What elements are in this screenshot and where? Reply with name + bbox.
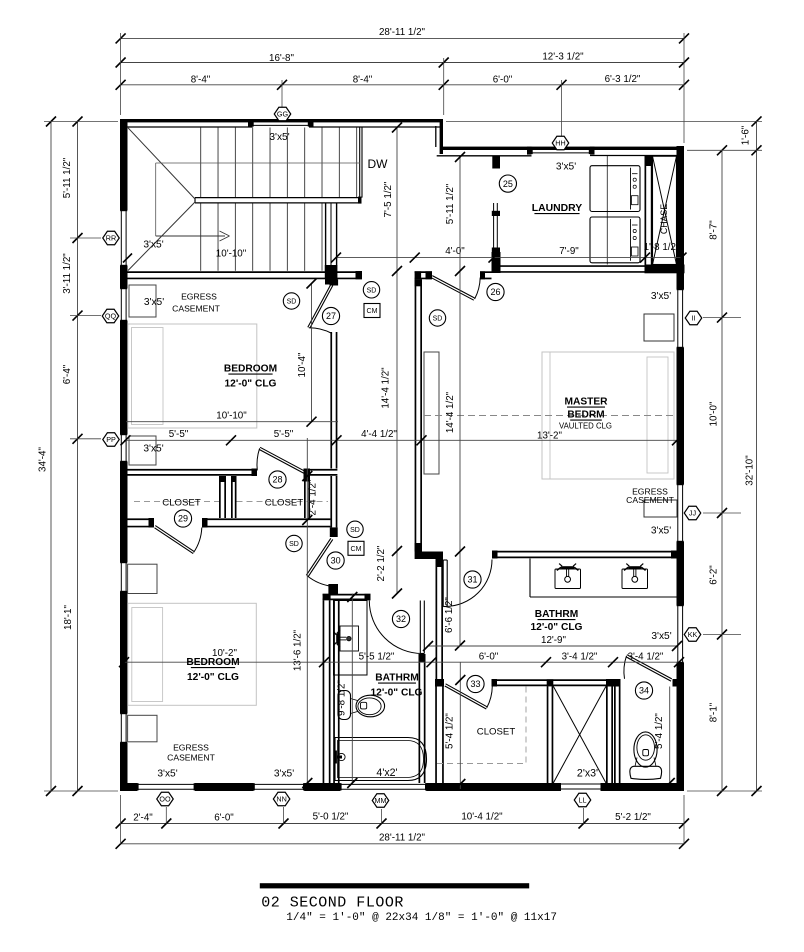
svg-text:26: 26 — [490, 287, 500, 297]
svg-text:BEDRM: BEDRM — [567, 410, 604, 421]
svg-text:13'-6 1/2": 13'-6 1/2" — [293, 629, 304, 671]
svg-text:7'-5 1/2": 7'-5 1/2" — [383, 181, 394, 217]
svg-text:13'-2": 13'-2" — [537, 431, 562, 442]
svg-text:CLOSET: CLOSET — [265, 498, 304, 509]
svg-text:5'-11 1/2": 5'-11 1/2" — [445, 183, 456, 224]
svg-text:10'-0": 10'-0" — [709, 401, 720, 426]
svg-text:3'x5': 3'x5' — [143, 240, 163, 251]
svg-text:6'-0": 6'-0" — [479, 651, 499, 662]
svg-text:BEDROOM: BEDROOM — [224, 364, 277, 375]
svg-text:3'x5': 3'x5' — [157, 769, 177, 780]
svg-text:NN: NN — [276, 795, 286, 804]
svg-text:14'-4 1/2": 14'-4 1/2" — [445, 391, 456, 433]
svg-text:10'-4 1/2": 10'-4 1/2" — [461, 812, 503, 823]
svg-text:8'-4": 8'-4" — [191, 74, 211, 85]
svg-text:PP: PP — [106, 435, 116, 444]
svg-text:HH: HH — [555, 139, 565, 148]
svg-text:28'-11 1/2": 28'-11 1/2" — [379, 27, 426, 38]
svg-text:28: 28 — [272, 475, 282, 485]
svg-text:6'-0": 6'-0" — [493, 74, 513, 85]
svg-text:12'-0" CLG: 12'-0" CLG — [531, 622, 583, 633]
svg-text:EGRESS: EGRESS — [173, 743, 209, 753]
svg-text:2'-4 1/2": 2'-4 1/2" — [308, 479, 319, 515]
svg-text:7'-9": 7'-9" — [559, 246, 579, 257]
svg-text:8'-1": 8'-1" — [709, 702, 720, 722]
svg-text:JJ: JJ — [689, 509, 697, 518]
svg-text:2'-2 1/2": 2'-2 1/2" — [376, 545, 387, 581]
svg-text:SD: SD — [367, 287, 377, 294]
svg-text:25: 25 — [503, 179, 513, 189]
svg-text:3'-4 1/2": 3'-4 1/2" — [562, 651, 598, 662]
svg-text:VAULTED CLG: VAULTED CLG — [559, 422, 612, 431]
svg-text:SD: SD — [287, 299, 297, 306]
svg-text:CHASE: CHASE — [659, 204, 669, 234]
svg-text:LAUNDRY: LAUNDRY — [532, 203, 582, 214]
svg-text:31: 31 — [467, 575, 477, 585]
svg-text:3'-4 1/2": 3'-4 1/2" — [628, 651, 664, 662]
svg-text:RR: RR — [106, 234, 116, 243]
svg-text:5'-5": 5'-5" — [274, 429, 294, 440]
svg-text:3'x5': 3'x5' — [556, 162, 576, 173]
svg-text:12'-0" CLG: 12'-0" CLG — [187, 672, 239, 683]
svg-text:10'-4": 10'-4" — [297, 352, 308, 377]
svg-text:12'-0" CLG: 12'-0" CLG — [371, 688, 423, 699]
svg-text:8'-4": 8'-4" — [353, 74, 373, 85]
svg-text:3'x5': 3'x5' — [269, 132, 289, 143]
svg-text:10'-10": 10'-10" — [216, 410, 247, 421]
svg-text:CASEMENT: CASEMENT — [172, 304, 220, 314]
svg-text:SD: SD — [433, 316, 443, 323]
svg-text:BEDROOM: BEDROOM — [186, 657, 239, 668]
svg-text:5'-4 1/2": 5'-4 1/2" — [445, 713, 456, 749]
svg-text:3'x5': 3'x5' — [651, 526, 671, 537]
svg-text:9'-8 1/2": 9'-8 1/2" — [337, 680, 348, 716]
svg-text:3'-11 1/2": 3'-11 1/2" — [62, 253, 73, 294]
svg-text:02 SECOND FLOOR: 02 SECOND FLOOR — [261, 895, 404, 912]
svg-text:5'-0 1/2": 5'-0 1/2" — [313, 812, 349, 823]
svg-text:8'-7": 8'-7" — [709, 220, 720, 240]
svg-text:29: 29 — [178, 514, 188, 524]
svg-text:4'x2': 4'x2' — [376, 767, 397, 779]
svg-text:12'-0" CLG: 12'-0" CLG — [225, 379, 277, 390]
svg-text:LL: LL — [579, 796, 587, 805]
svg-text:5'-5 1/2": 5'-5 1/2" — [359, 651, 395, 662]
svg-text:EGRESS: EGRESS — [181, 292, 217, 302]
svg-text:6'-6 1/2": 6'-6 1/2" — [444, 597, 455, 633]
svg-text:12'-9": 12'-9" — [541, 635, 566, 646]
svg-text:30: 30 — [331, 556, 341, 566]
svg-text:1/4" = 1'-0" @ 22x34 1/8" = 1': 1/4" = 1'-0" @ 22x34 1/8" = 1'-0" @ 11x1… — [286, 912, 557, 924]
svg-text:BATHRM: BATHRM — [375, 673, 418, 684]
svg-text:14'-4 1/2": 14'-4 1/2" — [381, 367, 392, 409]
svg-text:6'-3 1/2": 6'-3 1/2" — [605, 74, 641, 85]
svg-text:1'-6": 1'-6" — [741, 125, 752, 145]
svg-text:GG: GG — [277, 110, 289, 119]
svg-text:CM: CM — [367, 308, 378, 315]
svg-text:6'-2": 6'-2" — [709, 565, 720, 585]
svg-text:OO: OO — [159, 795, 171, 804]
svg-text:CM: CM — [351, 546, 362, 553]
svg-text:12'-3 1/2": 12'-3 1/2" — [542, 52, 584, 63]
svg-text:BATHRM: BATHRM — [535, 609, 578, 620]
svg-text:34'-4": 34'-4" — [38, 447, 49, 472]
svg-text:4'-4 1/2": 4'-4 1/2" — [361, 429, 397, 440]
svg-text:3'x5': 3'x5' — [144, 297, 164, 308]
svg-text:II: II — [692, 314, 696, 323]
svg-text:2'-4": 2'-4" — [133, 812, 153, 823]
svg-text:3'x5': 3'x5' — [651, 631, 671, 642]
svg-text:MM: MM — [375, 796, 387, 805]
svg-text:CASEMENT: CASEMENT — [626, 495, 674, 505]
svg-text:CLOSET: CLOSET — [162, 498, 201, 509]
svg-text:34: 34 — [639, 686, 649, 696]
svg-text:5'-4 1/2": 5'-4 1/2" — [654, 713, 665, 749]
svg-text:28'-11 1/2": 28'-11 1/2" — [379, 833, 426, 844]
svg-text:CASEMENT: CASEMENT — [167, 753, 215, 763]
svg-text:5'-2 1/2": 5'-2 1/2" — [615, 812, 651, 823]
svg-text:QQ: QQ — [105, 312, 117, 321]
svg-text:16'-8": 16'-8" — [269, 53, 294, 64]
svg-text:6'-0": 6'-0" — [214, 812, 234, 823]
svg-text:5'-11 1/2": 5'-11 1/2" — [62, 157, 73, 198]
svg-text:32: 32 — [396, 614, 406, 624]
svg-text:SD: SD — [350, 527, 360, 534]
svg-text:3'x5': 3'x5' — [651, 291, 671, 302]
svg-text:MASTER: MASTER — [564, 397, 608, 408]
svg-text:CLOSET: CLOSET — [477, 727, 516, 738]
svg-text:33: 33 — [470, 679, 480, 689]
svg-text:1'-8 1/2": 1'-8 1/2" — [644, 242, 680, 253]
svg-text:DW: DW — [368, 157, 389, 171]
svg-text:3'x5': 3'x5' — [274, 769, 294, 780]
svg-text:32'-10": 32'-10" — [745, 455, 756, 486]
svg-text:18'-1": 18'-1" — [63, 605, 74, 630]
svg-text:5'-5": 5'-5" — [169, 429, 189, 440]
svg-text:27: 27 — [326, 311, 336, 321]
svg-text:10'-10": 10'-10" — [216, 249, 247, 260]
svg-text:3'x5': 3'x5' — [143, 444, 163, 455]
svg-text:KK: KK — [688, 630, 698, 639]
svg-text:4'-0": 4'-0" — [445, 246, 465, 257]
svg-text:2'x3': 2'x3' — [577, 768, 598, 780]
svg-text:6'-4": 6'-4" — [62, 364, 73, 384]
svg-text:SD: SD — [289, 541, 299, 548]
